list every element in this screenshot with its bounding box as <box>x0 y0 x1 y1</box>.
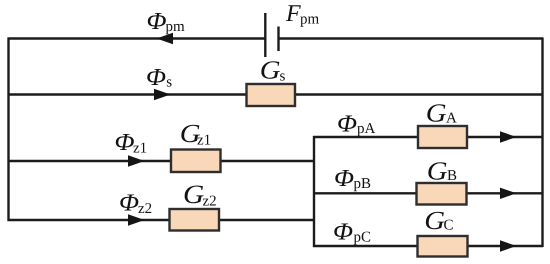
wire branch B right segment <box>467 192 544 194</box>
svg-text:z2: z2 <box>138 201 152 217</box>
label Phi_pA <box>337 110 376 137</box>
label Phi_s <box>146 64 172 91</box>
arrow phi_s (right-pointing) <box>154 89 171 100</box>
svg-text:s: s <box>280 69 286 85</box>
label G_C <box>424 206 453 235</box>
label G_A <box>426 99 457 128</box>
resistor G_A <box>418 126 467 148</box>
arrow phi_pB (right-pointing) <box>500 188 517 199</box>
svg-text:Φ: Φ <box>334 165 354 192</box>
label Phi_z2 <box>119 190 152 217</box>
svg-text:s: s <box>166 75 172 91</box>
resistor G_C <box>418 236 468 257</box>
svg-text:pC: pC <box>354 230 372 246</box>
wire left vertical bus <box>7 38 9 222</box>
label G_B <box>427 157 457 186</box>
svg-text:Φ: Φ <box>146 64 166 91</box>
wire z1 line left segment <box>8 160 172 162</box>
wire s line left segment <box>8 93 248 95</box>
label G_s <box>260 56 286 85</box>
wire z2 line right segment <box>219 219 315 221</box>
resistor G_z1 <box>171 150 221 173</box>
svg-text:G: G <box>260 56 281 85</box>
wire top line right segment <box>279 37 543 39</box>
svg-text:z1: z1 <box>133 140 147 156</box>
label Phi_pC <box>333 219 371 246</box>
arrow phi_z2 (right-pointing) <box>128 214 145 225</box>
svg-text:z1: z1 <box>197 132 211 148</box>
svg-text:F: F <box>285 1 301 27</box>
arrow phi_pm (left-pointing) <box>157 33 174 44</box>
svg-text:A: A <box>446 110 457 126</box>
svg-text:Φ: Φ <box>115 129 135 156</box>
resistor G_z2 <box>170 209 220 231</box>
arrow phi_pA (right-pointing) <box>500 131 517 142</box>
svg-text:G: G <box>427 157 448 186</box>
svg-text:Φ: Φ <box>333 219 353 246</box>
svg-text:Φ: Φ <box>147 8 167 35</box>
wire branch C right segment <box>468 245 544 247</box>
wire z1 line right segment <box>221 160 316 162</box>
resistor G_s <box>247 84 296 106</box>
wire branch B left segment <box>313 192 417 194</box>
svg-text:G: G <box>183 179 204 209</box>
svg-text:C: C <box>444 218 454 234</box>
wire middle vertical bus <box>313 136 315 247</box>
svg-text:z2: z2 <box>203 193 217 209</box>
svg-text:pA: pA <box>357 121 376 137</box>
svg-text:pm: pm <box>300 12 320 28</box>
svg-text:G: G <box>424 206 445 235</box>
wire branch A left segment <box>313 136 418 138</box>
svg-text:pB: pB <box>354 176 372 192</box>
wire z2 line left segment <box>8 219 170 221</box>
label G_z2 <box>183 179 217 209</box>
wire top line left segment <box>8 37 266 39</box>
label G_z1 <box>180 119 211 148</box>
svg-text:pm: pm <box>166 19 186 35</box>
arrow phi_z1 (right-pointing) <box>128 155 145 166</box>
svg-text:Φ: Φ <box>119 190 139 217</box>
battery F_pm plates <box>265 13 278 57</box>
label F_pm <box>285 1 320 28</box>
resistor G_B <box>417 183 467 205</box>
label Phi_pB <box>334 165 371 192</box>
wire branch C left segment <box>313 245 418 247</box>
svg-text:G: G <box>426 99 447 128</box>
label Phi_z1 <box>115 129 148 156</box>
label Phi_pm <box>147 8 186 35</box>
wire right vertical bus <box>541 38 543 248</box>
arrow phi_pC (right-pointing) <box>500 240 517 251</box>
svg-text:Φ: Φ <box>337 110 357 137</box>
svg-text:B: B <box>447 168 457 184</box>
wire s line right segment <box>295 93 543 95</box>
wire branch A right segment <box>467 136 543 138</box>
